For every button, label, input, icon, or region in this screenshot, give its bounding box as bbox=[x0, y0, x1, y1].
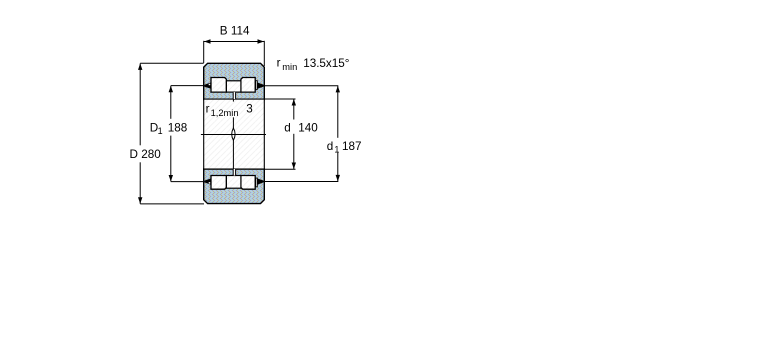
svg-text:187: 187 bbox=[342, 140, 362, 153]
svg-text:1: 1 bbox=[334, 145, 339, 155]
svg-text:r: r bbox=[277, 57, 281, 70]
svg-text:d: d bbox=[284, 122, 291, 135]
svg-text:188: 188 bbox=[168, 122, 188, 135]
svg-text:d: d bbox=[327, 140, 334, 153]
svg-text:13.5x15°: 13.5x15° bbox=[303, 57, 349, 70]
svg-text:B 114: B 114 bbox=[220, 25, 250, 38]
svg-text:1: 1 bbox=[158, 126, 163, 136]
svg-text:1,2min: 1,2min bbox=[211, 108, 239, 118]
svg-text:3: 3 bbox=[246, 103, 253, 116]
svg-text:D 280: D 280 bbox=[130, 148, 162, 161]
svg-text:140: 140 bbox=[298, 122, 318, 135]
svg-text:min: min bbox=[282, 62, 297, 72]
svg-text:r: r bbox=[206, 103, 210, 116]
